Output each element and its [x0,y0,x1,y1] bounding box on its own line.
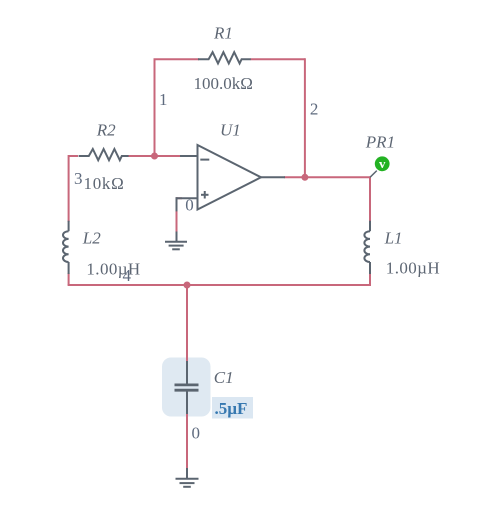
svg-text:L2: L2 [82,228,101,247]
svg-text:C1: C1 [214,368,234,387]
svg-text:L1: L1 [384,228,403,247]
svg-text:1: 1 [159,90,168,109]
svg-text:2: 2 [310,100,319,119]
svg-text:PR1: PR1 [365,132,395,151]
svg-text:1.00µH: 1.00µH [386,259,440,278]
svg-text:R1: R1 [213,24,233,43]
svg-text:4: 4 [123,266,132,285]
svg-text:U1: U1 [220,121,241,140]
svg-text:0: 0 [192,424,201,443]
svg-text:100.0kΩ: 100.0kΩ [194,74,253,93]
svg-text:3: 3 [74,169,83,188]
svg-text:.5µF: .5µF [215,399,248,418]
svg-text:v: v [379,156,386,171]
svg-text:10kΩ: 10kΩ [84,174,125,193]
svg-text:R2: R2 [96,121,116,140]
svg-text:0: 0 [185,195,194,214]
svg-text:1.00µH: 1.00µH [86,260,140,279]
